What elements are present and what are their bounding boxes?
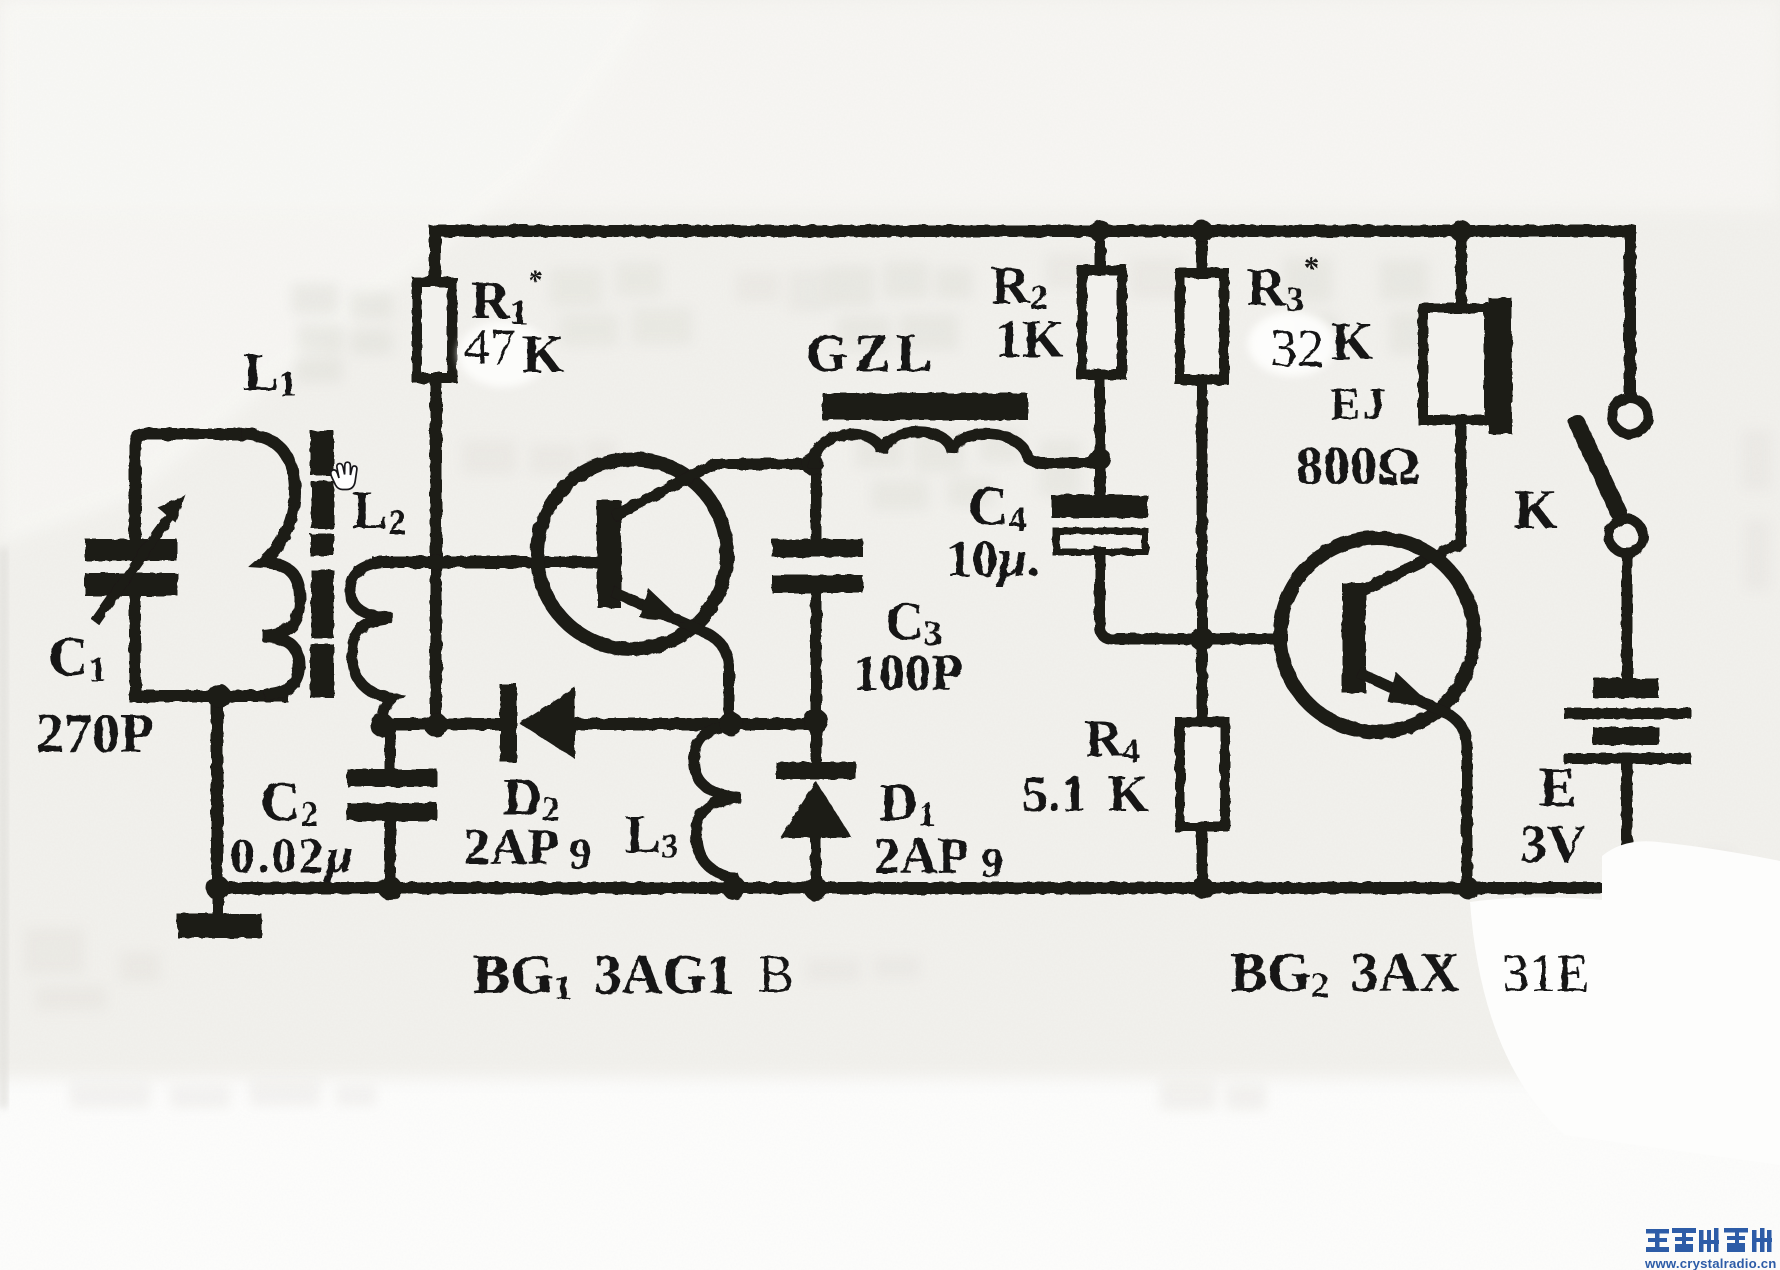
svg-text:GZL: GZL	[806, 323, 938, 383]
svg-text:K: K	[522, 324, 564, 384]
wire C3 leads	[811, 465, 822, 721]
ground symbol	[177, 888, 262, 938]
capacitor C4	[1051, 495, 1148, 552]
transistor BG2 emitter arrow	[1388, 672, 1432, 706]
diode D2	[500, 684, 575, 762]
inductor L3	[694, 726, 740, 888]
wire bottom ground rail	[217, 696, 1627, 888]
capacitor C2	[347, 769, 437, 821]
transistor BG1 collector lead	[618, 464, 812, 514]
svg-text:3V: 3V	[1520, 814, 1586, 874]
main schematic ink	[85, 220, 1691, 938]
wire R1 bottom to base node	[430, 378, 442, 726]
wire R3 leads	[1197, 234, 1208, 722]
node R3-base junction	[1190, 627, 1214, 651]
transformer GZL winding	[814, 432, 1100, 463]
left scan edge	[0, 548, 7, 1108]
resistor R1	[417, 282, 452, 378]
white patch behind 31E	[1470, 841, 1780, 1165]
transistor BG2 circle	[1280, 538, 1474, 732]
resistor R3	[1180, 273, 1224, 380]
node R4-rail junction	[1192, 877, 1214, 899]
node D1-rail junction	[804, 877, 828, 901]
transistor BG1 emitter lead	[618, 594, 729, 724]
capacitor C3	[772, 539, 863, 593]
wire EJ top lead	[1456, 234, 1467, 308]
wire EJ bottom to BG2 collector	[1363, 420, 1461, 590]
transistor BG2 emitter lead	[1364, 675, 1467, 886]
node R1-base junction	[428, 554, 444, 570]
svg-text:800Ω: 800Ω	[1296, 436, 1420, 496]
svg-text:K: K	[1331, 311, 1373, 371]
svg-text:EJ: EJ	[1330, 378, 1388, 429]
bottom white band	[0, 1078, 1780, 1270]
inductor L2 winding	[350, 562, 392, 722]
battery E plates	[1564, 678, 1691, 764]
wire R4 bottom lead	[1197, 827, 1208, 886]
node detector-C3 junction	[804, 709, 828, 733]
transformer GZL core bar	[822, 393, 1028, 420]
white patch behind 32	[1248, 312, 1336, 376]
wire C4 bottom to BG2 base	[1100, 552, 1282, 639]
node C2-rail junction	[378, 876, 402, 900]
node L2 bottom junction	[370, 713, 394, 737]
wire D1 leads	[811, 721, 822, 888]
transistor BG1 circle	[537, 459, 727, 649]
wire battery bottom lead	[1622, 764, 1633, 888]
node L3 bottom junction	[722, 876, 746, 900]
wire top supply rail	[435, 231, 1630, 396]
svg-text:32: 32	[1270, 318, 1324, 378]
node ground stub junction	[206, 876, 230, 900]
diode D1	[776, 762, 856, 838]
svg-text:www.crystalradio.cn: www.crystalradio.cn	[1644, 1256, 1777, 1270]
svg-text:5.1 K: 5.1 K	[1022, 766, 1149, 823]
node base-rail junction	[424, 713, 448, 737]
svg-text:1K: 1K	[995, 309, 1064, 369]
capacitor C1 plates	[85, 539, 178, 596]
node emitter-rail junction	[1457, 877, 1479, 899]
lighter top-left region	[0, 0, 660, 545]
svg-text:47: 47	[464, 319, 516, 376]
lighter top strip	[0, 0, 1780, 210]
capacitor C1 tank branch	[135, 434, 282, 696]
node rail-R3 junction	[1191, 220, 1213, 242]
capacitor C1 arrow	[98, 519, 168, 618]
svg-text:270P: 270P	[36, 703, 154, 765]
transistor BG2 base bar	[1342, 583, 1366, 693]
resistor R2	[1082, 270, 1122, 375]
node rail-EJ junction	[1450, 220, 1472, 242]
svg-text:B: B	[758, 944, 794, 1004]
node R2-GZL junction	[1089, 448, 1111, 470]
wire C2 leads	[385, 726, 396, 887]
switch K bottom contact	[1609, 519, 1643, 553]
earphone EJ	[1423, 298, 1512, 434]
switch K lever	[1577, 423, 1619, 513]
svg-text:BG13AG1: BG13AG1	[473, 944, 734, 1007]
svg-text:0.02μ: 0.02μ	[230, 827, 355, 883]
watermark crystalradio logo	[1646, 1228, 1772, 1252]
wire detector net (y=724)	[382, 718, 816, 730]
white spot behind 47	[458, 321, 548, 387]
node tank bottom junction	[207, 684, 231, 708]
transistor BG1 emitter arrow	[640, 588, 684, 622]
wire BG1 base lead	[378, 556, 598, 568]
svg-text:K: K	[1514, 479, 1558, 541]
inductor L1	[247, 434, 300, 694]
svg-text:E: E	[1539, 757, 1576, 819]
wire R2 leads	[1095, 234, 1106, 495]
transistor BG1 base bar	[597, 500, 621, 608]
node L3 top junction	[719, 712, 743, 736]
svg-text:100P: 100P	[853, 645, 963, 702]
svg-text:10μ.: 10μ.	[946, 531, 1040, 588]
svg-text:31E: 31E	[1502, 943, 1589, 1003]
switch K top contact	[1612, 398, 1648, 434]
wire switch to battery	[1622, 553, 1633, 678]
node collector-GZL junction	[801, 453, 823, 475]
ghost bleed-through text	[24, 254, 1772, 1110]
resistor R4	[1180, 722, 1225, 827]
cursor hand icon	[331, 462, 357, 489]
core L2 dashed bars	[310, 431, 334, 698]
node rail-R2 junction	[1089, 220, 1111, 242]
